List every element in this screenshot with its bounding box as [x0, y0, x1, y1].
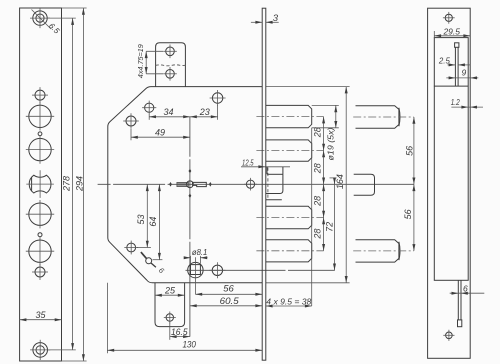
bolt row5 side view	[356, 240, 399, 262]
body screw hole bottom right	[209, 262, 225, 278]
dimension 278	[48, 18, 76, 350]
svg-text:294: 294	[75, 176, 85, 192]
bolt row1 front	[266, 105, 312, 127]
main horizontal centerline row3	[98, 183, 414, 185]
leader line 6.5	[32, 10, 52, 30]
dimension 2.5	[438, 55, 470, 66]
dimension dia 8.1	[184, 247, 208, 263]
svg-text:164: 164	[335, 174, 345, 189]
strike plate screw bottom	[443, 330, 454, 341]
svg-text:53: 53	[136, 214, 146, 224]
dimension 64	[148, 184, 162, 259]
bolt hole circle 2	[26, 135, 54, 163]
extension line bolt tips	[311, 128, 313, 306]
bolt row4 front	[266, 206, 312, 229]
service keyhole	[141, 252, 167, 276]
bolt hole circle 1	[26, 102, 54, 130]
svg-text:60.5: 60.5	[220, 296, 240, 307]
bottom mounting tab	[155, 283, 185, 327]
dimension 3	[251, 13, 279, 24]
top screw hole countersink	[30, 8, 50, 28]
svg-text:6: 6	[463, 284, 468, 294]
node diamonds around key center	[169, 169, 212, 198]
svg-text:278: 278	[61, 176, 71, 192]
svg-text:ø19 (5x): ø19 (5x)	[326, 127, 335, 160]
svg-text:6: 6	[157, 266, 167, 276]
faceplate strip edge view	[262, 8, 266, 360]
svg-text:ø8.1: ø8.1	[192, 247, 208, 257]
svg-text:6.5: 6.5	[47, 21, 62, 36]
svg-text:4x4.75=19: 4x4.75=19	[136, 43, 145, 78]
dimension 16.5	[170, 323, 190, 340]
dimension 29.5	[434, 26, 470, 37]
dimension 1.2	[451, 97, 483, 109]
chain dimension 28 x4	[312, 117, 325, 251]
dimension 9	[446, 68, 478, 80]
dimension 53	[136, 184, 151, 247]
svg-text:12.5: 12.5	[242, 157, 254, 167]
svg-text:72: 72	[325, 222, 335, 232]
tab hole lower	[163, 67, 177, 81]
bolt row5 front	[266, 240, 312, 262]
svg-text:1.2: 1.2	[451, 97, 460, 107]
vertical centerline of keyhole column	[189, 117, 191, 337]
svg-text:4 x 9.5 = 38: 4 x 9.5 = 38	[266, 296, 311, 306]
key bit profile	[177, 181, 206, 188]
svg-text:25: 25	[164, 285, 176, 295]
dimension 164	[266, 87, 350, 283]
svg-text:9: 9	[462, 68, 467, 78]
dimension 23	[190, 105, 218, 119]
recess inner line	[434, 85, 468, 87]
strike plate screw top	[443, 12, 455, 24]
strike plate outline	[428, 8, 471, 358]
lock body outline	[108, 87, 262, 283]
svg-text:28: 28	[312, 229, 322, 240]
keyhole cutout	[26, 170, 54, 198]
tab hole upper	[163, 45, 177, 59]
dimension dia 19 (5x)	[312, 105, 339, 160]
body screw hole top middle	[142, 101, 156, 115]
bolt row2 front	[266, 140, 312, 161]
dimension 6	[450, 284, 485, 295]
bottom screw hole countersink	[30, 340, 50, 360]
dimension 35	[20, 310, 62, 321]
dimension 4 x 9.5 = 38	[266, 296, 312, 307]
dimension 34	[149, 107, 190, 120]
tab break line	[156, 64, 186, 67]
svg-text:28: 28	[312, 196, 322, 207]
top mounting tab	[156, 43, 186, 87]
slot upper	[455, 43, 459, 86]
svg-text:23: 23	[199, 107, 210, 117]
bottom tab hole	[164, 312, 176, 324]
dimension 56 horizontal	[195, 284, 262, 296]
screw hole with cross slot upper	[32, 87, 48, 103]
svg-text:2.5: 2.5	[438, 55, 450, 65]
screw hole with cross slot lower	[32, 264, 48, 280]
tiny hole 2	[38, 233, 42, 237]
svg-text:56: 56	[405, 146, 415, 156]
bolt hole circle 3	[26, 200, 54, 228]
svg-text:3: 3	[273, 13, 279, 24]
bolt centerlines front	[256, 116, 323, 118]
svg-text:35: 35	[35, 310, 46, 320]
body screw hole top left	[123, 113, 139, 129]
svg-text:56: 56	[223, 284, 234, 295]
keyhole guide block	[266, 167, 283, 200]
strike recess rectangle	[434, 38, 468, 281]
bolt hole circle 4	[26, 237, 54, 265]
dimension 4x4.75=19	[136, 43, 163, 78]
dimension 49	[131, 127, 190, 140]
slot lower	[458, 280, 462, 326]
tiny hole 1	[38, 132, 42, 136]
bolt row3 short side view	[354, 174, 375, 195]
dimension 56 upper	[405, 117, 416, 251]
dimension 130	[107, 283, 262, 354]
svg-text:16.5: 16.5	[171, 327, 188, 337]
svg-text:130: 130	[182, 340, 196, 351]
dimension 25	[155, 285, 185, 296]
body screw hole top right	[210, 90, 226, 106]
label 12.5 with leader	[241, 157, 290, 168]
dimension 294	[62, 8, 87, 361]
svg-text:56: 56	[403, 209, 413, 219]
dimension 72	[325, 178, 337, 271]
dimension 60.5	[190, 296, 262, 307]
svg-text:28: 28	[312, 163, 322, 174]
cylinder keyhole square in circle	[186, 257, 335, 294]
svg-text:49: 49	[155, 127, 165, 137]
side bolt centerlines	[353, 116, 414, 118]
left faceplate outline	[20, 8, 62, 361]
svg-text:28: 28	[312, 127, 322, 138]
svg-text:64: 64	[148, 217, 158, 227]
handle hub hole	[124, 241, 138, 255]
svg-text:34: 34	[163, 107, 173, 117]
svg-text:29.5: 29.5	[442, 26, 460, 36]
screw hole on keyway centerline	[244, 178, 257, 191]
bolt row1 side view	[356, 106, 399, 129]
